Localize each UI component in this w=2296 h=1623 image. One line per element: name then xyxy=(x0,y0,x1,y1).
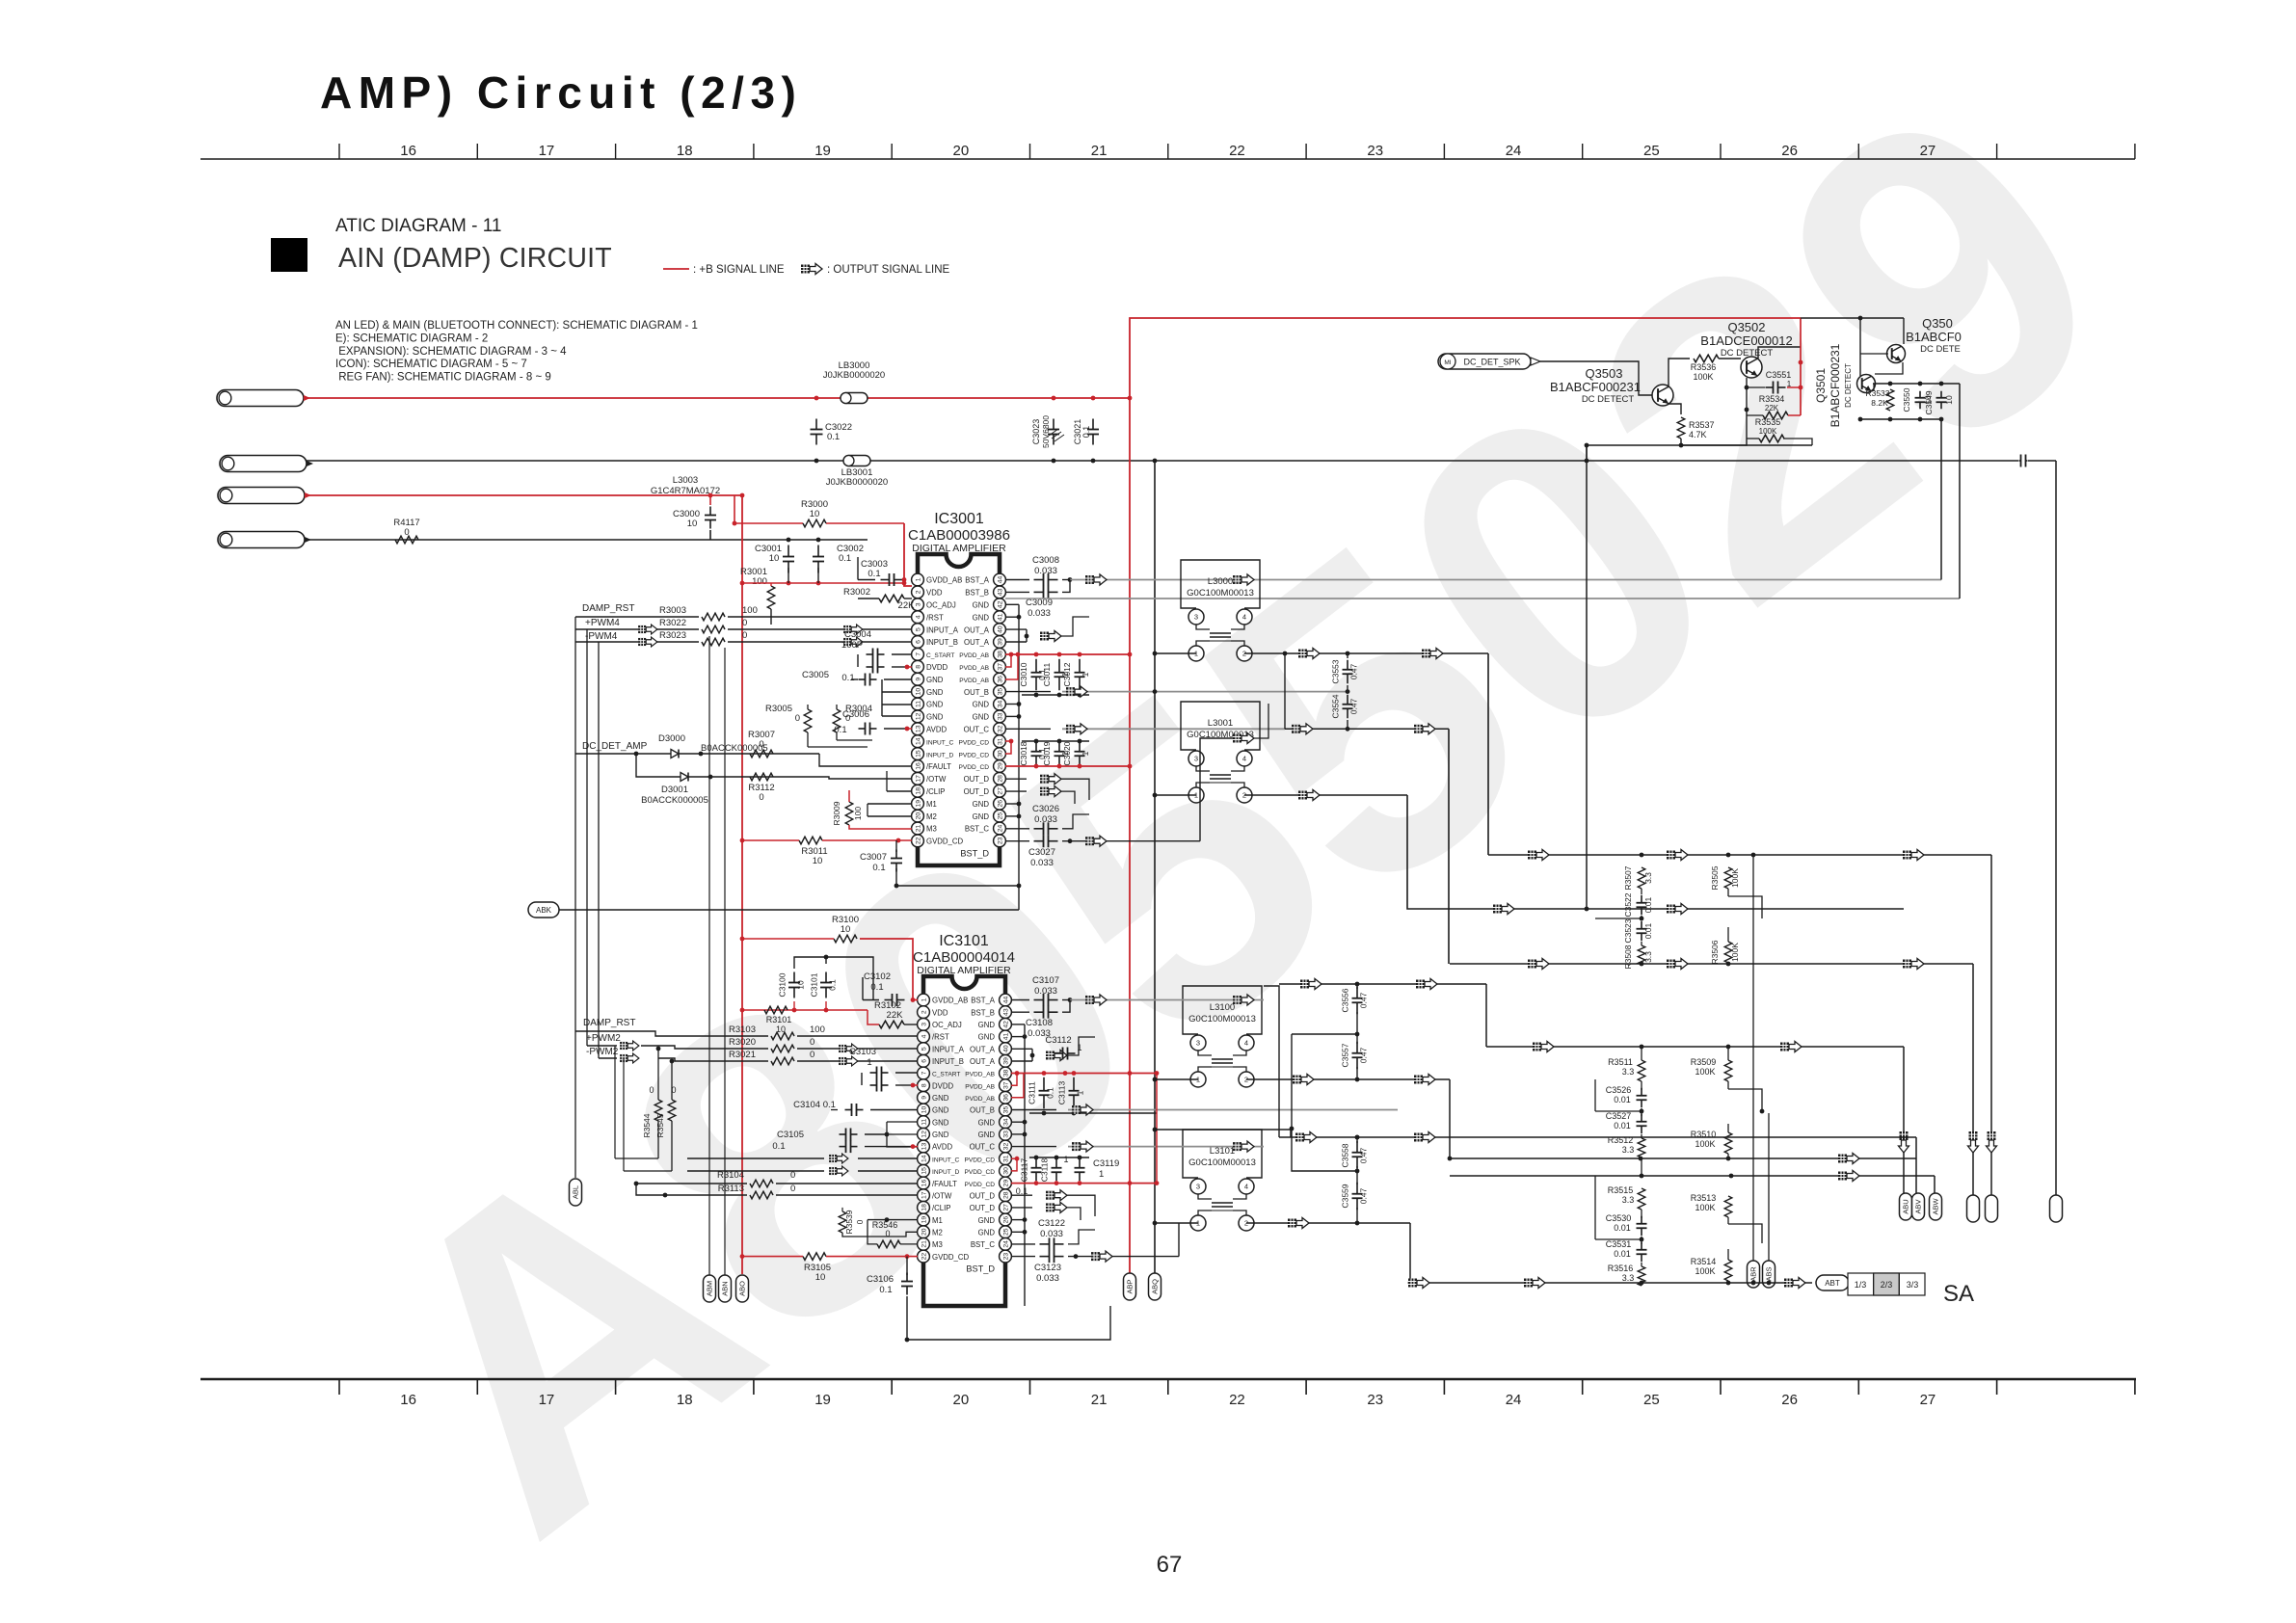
svg-text:26: 26 xyxy=(1781,143,1798,159)
svg-text:0.01: 0.01 xyxy=(1643,896,1653,913)
svg-text:34: 34 xyxy=(997,701,1003,708)
svg-text:C3006: C3006 xyxy=(842,709,869,720)
wire Q3501 rails xyxy=(1873,384,1875,391)
svg-text:C_START: C_START xyxy=(932,1072,960,1078)
wire OUT_A rows xyxy=(1005,628,1027,630)
svg-text:0.01: 0.01 xyxy=(1614,1121,1631,1131)
svg-text:PVDD_AB: PVDD_AB xyxy=(965,1072,995,1078)
capacitor C3023 (electrolytic) xyxy=(1053,419,1055,430)
svg-text:R3003: R3003 xyxy=(659,605,686,616)
svg-text:35: 35 xyxy=(997,688,1003,696)
svg-text:44: 44 xyxy=(1002,997,1009,1004)
svg-text:OUT_C: OUT_C xyxy=(970,1143,996,1152)
capacitor C3000 xyxy=(709,507,711,516)
wire bus 943 xyxy=(1407,795,1904,909)
svg-text:L3001: L3001 xyxy=(1208,718,1233,729)
svg-text:D3001: D3001 xyxy=(661,785,688,795)
resistor R3020 xyxy=(771,1045,794,1052)
svg-text:0.1: 0.1 xyxy=(870,982,883,993)
capacitor C3012 xyxy=(1079,659,1081,673)
svg-text:INPUT_A: INPUT_A xyxy=(932,1045,965,1053)
resistor R3534 xyxy=(1763,412,1788,419)
wire rail to verticals xyxy=(1940,419,1942,580)
pill ABP xyxy=(1124,1273,1136,1300)
svg-text:0.033: 0.033 xyxy=(1040,1229,1063,1239)
junction dots input nets xyxy=(740,493,745,498)
capacitor C3111 xyxy=(1043,1078,1045,1091)
svg-text:PVDD_CD: PVDD_CD xyxy=(964,1182,995,1188)
ferrite bead LB3001 xyxy=(843,456,870,466)
IC3101 pin 10 GND xyxy=(918,1104,930,1116)
svg-text:GND: GND xyxy=(926,676,944,684)
IC3101 pin 21 M3 xyxy=(918,1238,930,1251)
resistor R3536 xyxy=(1694,355,1719,362)
resistor R3539 xyxy=(839,1211,846,1233)
svg-text:0.033: 0.033 xyxy=(1028,608,1051,619)
svg-text:DC_DET_SPK: DC_DET_SPK xyxy=(1463,358,1520,367)
svg-text:43: 43 xyxy=(1002,1008,1009,1016)
svg-text:0.1: 0.1 xyxy=(839,553,851,564)
svg-text:25: 25 xyxy=(1643,1392,1660,1408)
wire L3101 pin2 output xyxy=(1246,1222,1410,1224)
svg-text:GND: GND xyxy=(978,1228,996,1237)
svg-text:C1AB00003986: C1AB00003986 xyxy=(908,527,1010,544)
wire INPUT_C row 2 xyxy=(615,1157,658,1159)
svg-text:3.3: 3.3 xyxy=(1622,1145,1635,1155)
wire CLIP M1 M2 stubs xyxy=(887,790,912,792)
IC3001 pin 37 PVDD_AB xyxy=(994,660,1006,673)
inductor L3100 xyxy=(1183,986,1262,1034)
wire INPUT_D row 2 xyxy=(624,1170,672,1172)
wire L3001 pin2 output xyxy=(1244,794,1407,796)
svg-text:17: 17 xyxy=(539,1392,555,1408)
IC body IC3001 xyxy=(918,554,1000,865)
svg-text:1: 1 xyxy=(921,998,927,1001)
svg-text:B1ADCE000012: B1ADCE000012 xyxy=(1700,333,1792,348)
wire top black jog xyxy=(1801,317,1904,319)
IC3001 pin 16 /FAULT xyxy=(912,760,924,773)
svg-text:REG FAN): SCHEMATIC DIAGRAM -: REG FAN): SCHEMATIC DIAGRAM - 8 ~ 9 xyxy=(335,372,551,384)
capacitor C3021 xyxy=(1092,419,1094,430)
IC3101 pin 41 GND xyxy=(1000,1030,1012,1043)
svg-text:GND: GND xyxy=(973,800,990,809)
IC3001 pin 3 OC_ADJ xyxy=(912,599,924,611)
svg-text:18: 18 xyxy=(677,1392,693,1408)
pill right lone xyxy=(2050,1195,2063,1222)
svg-text:0.1: 0.1 xyxy=(872,863,885,873)
svg-text:C3018: C3018 xyxy=(1019,741,1028,765)
svg-text:PVDD_CD: PVDD_CD xyxy=(958,764,989,771)
svg-text:25: 25 xyxy=(1643,143,1660,159)
svg-text:23: 23 xyxy=(1002,1253,1009,1261)
svg-text:DC DETECT: DC DETECT xyxy=(1844,363,1853,408)
IC3001 pin 8 DVDD xyxy=(912,660,924,673)
wire C3558 C3559 spine xyxy=(1356,1137,1358,1143)
ferrite bead LB3000 xyxy=(841,393,868,404)
svg-text:28: 28 xyxy=(1002,1191,1009,1199)
svg-text:0.47: 0.47 xyxy=(1359,1147,1369,1163)
arrow +PWM2 in xyxy=(620,1041,639,1051)
svg-text:C3106: C3106 xyxy=(867,1274,894,1285)
svg-text:OUT_D: OUT_D xyxy=(970,1204,996,1212)
svg-text:D3000: D3000 xyxy=(658,733,685,744)
svg-text:32: 32 xyxy=(1002,1143,1009,1151)
svg-text:L3101: L3101 xyxy=(1210,1146,1235,1157)
capacitor C3020 xyxy=(1079,743,1081,752)
pill ABL xyxy=(570,1179,582,1206)
IC3001 pin 24 BST_C xyxy=(994,822,1006,835)
svg-text:OUT_C: OUT_C xyxy=(964,726,990,734)
svg-text:ABQ: ABQ xyxy=(1151,1279,1160,1294)
wire +PWM4 row xyxy=(575,628,699,630)
IC3001 pin 32 OUT_C xyxy=(994,723,1006,735)
svg-text:C3559: C3559 xyxy=(1341,1184,1350,1208)
svg-text:0: 0 xyxy=(759,739,763,750)
svg-text:OUT_D: OUT_D xyxy=(970,1191,996,1200)
svg-text:0.1: 0.1 xyxy=(879,1285,892,1295)
wire cap tops rail CD2 xyxy=(1029,1157,1089,1158)
svg-text:C3023: C3023 xyxy=(1031,419,1041,445)
wire C3556 leads xyxy=(1356,984,1358,989)
wire cap bottoms rail 2 xyxy=(1029,1112,1157,1114)
resistor R3112 xyxy=(750,773,773,781)
svg-text:10: 10 xyxy=(1944,395,1954,405)
resistor R3544 xyxy=(654,1100,662,1121)
legend +B signal line xyxy=(663,268,689,270)
svg-text:ABT: ABT xyxy=(1825,1279,1840,1288)
svg-text:R3002: R3002 xyxy=(843,587,870,598)
svg-text:DC_DET_AMP: DC_DET_AMP xyxy=(582,741,648,752)
svg-text:0: 0 xyxy=(790,1184,795,1194)
wire riser x1544 xyxy=(1487,653,1489,855)
svg-text:Q3502: Q3502 xyxy=(1727,320,1765,334)
wire risers from PWM rows xyxy=(574,617,576,1178)
svg-text:4: 4 xyxy=(921,1034,927,1038)
wire L3001 pin1 to riser xyxy=(1155,794,1196,796)
bottom ruler scale xyxy=(200,1378,2136,1381)
svg-text:100K: 100K xyxy=(1730,943,1740,962)
IC3101 pin 23 BST_D xyxy=(1000,1250,1012,1263)
wire R3536 to Q3502 xyxy=(1719,358,1741,359)
wire Q3502 collector red xyxy=(1758,347,1801,359)
IC3101 pin 12 GND xyxy=(918,1128,930,1140)
wire bus 887 xyxy=(1488,854,1991,856)
IC3001 pin 22 GVDD_CD xyxy=(912,835,924,847)
svg-text:J0JKB0000020: J0JKB0000020 xyxy=(826,477,888,488)
wire OUT_D2 steps xyxy=(1067,1195,1095,1216)
IC3101 pin 11 GND xyxy=(918,1116,930,1129)
arrow OUT_B2 xyxy=(1072,1104,1093,1115)
svg-text:3: 3 xyxy=(921,1023,927,1026)
IC3101 pin 13 AVDD xyxy=(918,1140,930,1153)
svg-text:C3554: C3554 xyxy=(1331,694,1341,718)
wire R3537 bottom xyxy=(1680,439,1682,445)
connector P1 xyxy=(217,390,304,407)
IC3101 pin 18 /CLIP xyxy=(918,1201,930,1213)
svg-text:C3103: C3103 xyxy=(849,1047,876,1057)
svg-text:17: 17 xyxy=(921,1191,927,1199)
wire cluster3 links xyxy=(1641,1210,1642,1218)
IC3101 pin 6 INPUT_B xyxy=(918,1054,930,1067)
wire DC_DET_SPK to Q3503 xyxy=(1540,361,1652,395)
svg-text:0: 0 xyxy=(795,713,800,724)
svg-text:R3101: R3101 xyxy=(766,1015,792,1024)
svg-text:IC3001: IC3001 xyxy=(934,511,984,527)
svg-text:R3509: R3509 xyxy=(1691,1057,1717,1067)
wire OUT_C2 out xyxy=(1011,1146,1056,1148)
IC3001 pin 18 /CLIP xyxy=(912,785,924,797)
arrow BST_D xyxy=(1085,836,1107,846)
svg-text:IC3101: IC3101 xyxy=(939,933,989,949)
IC3101 pin 5 INPUT_A xyxy=(918,1043,930,1055)
IC3001 pin 2 VDD xyxy=(912,586,924,599)
svg-text:BST_B: BST_B xyxy=(965,589,989,598)
svg-text:10: 10 xyxy=(841,924,851,935)
svg-text:3.3: 3.3 xyxy=(1622,1195,1635,1205)
wire BST_A out xyxy=(1005,579,1029,581)
capacitor C3006 xyxy=(859,728,866,730)
svg-text:J0JKB0000020: J0JKB0000020 xyxy=(823,370,885,381)
svg-text:OUT_A: OUT_A xyxy=(964,638,990,647)
svg-text:14: 14 xyxy=(921,1155,927,1162)
capacitor C3001 xyxy=(788,545,789,557)
arrow OUT_C xyxy=(1066,724,1087,734)
svg-text:C3530: C3530 xyxy=(1606,1213,1632,1223)
wire PVDD_CD2 pin taps xyxy=(1011,1157,1017,1171)
capacitor C3009 xyxy=(1034,591,1044,593)
svg-text:GVDD_CD: GVDD_CD xyxy=(926,838,963,846)
svg-text:ABL: ABL xyxy=(572,1185,580,1199)
svg-text:PVDD_CD: PVDD_CD xyxy=(964,1169,995,1176)
capacitor C3558 xyxy=(1356,1141,1358,1153)
svg-text:29: 29 xyxy=(1002,1180,1009,1187)
svg-text:0: 0 xyxy=(855,1219,865,1224)
svg-text:DVDD: DVDD xyxy=(932,1081,953,1090)
svg-text:100K: 100K xyxy=(1759,427,1777,436)
svg-text:28: 28 xyxy=(997,775,1003,783)
svg-text:-PWM2: -PWM2 xyxy=(586,1047,619,1057)
svg-text:E): SCHEMATIC DIAGRAM - 2: E): SCHEMATIC DIAGRAM - 2 xyxy=(335,333,488,344)
svg-text:ABK: ABK xyxy=(536,906,552,915)
svg-text:12: 12 xyxy=(921,1131,927,1138)
pill ABN xyxy=(719,1275,732,1302)
capacitor C3008 xyxy=(1034,579,1044,581)
wire row 1172 stub xyxy=(1155,1129,1291,1131)
capacitor C3122 xyxy=(1040,1243,1050,1245)
svg-text:0: 0 xyxy=(742,630,747,641)
svg-text:R3508: R3508 xyxy=(1623,945,1633,969)
svg-text:0.47: 0.47 xyxy=(1349,698,1359,714)
IC3001 pin 7 C_START xyxy=(912,649,924,661)
IC3001 pin 25 GND xyxy=(994,810,1006,822)
svg-text:R3535: R3535 xyxy=(1755,417,1781,427)
svg-text:R3544: R3544 xyxy=(642,1113,652,1137)
svg-text:5: 5 xyxy=(915,627,921,631)
svg-text:B1ABCF000231: B1ABCF000231 xyxy=(1550,380,1641,394)
svg-text:10: 10 xyxy=(815,1272,826,1283)
svg-text:0.47: 0.47 xyxy=(1359,1187,1369,1204)
wire Q3503 emitter xyxy=(1669,404,1681,414)
svg-text:R3536: R3536 xyxy=(1691,362,1717,372)
IC3001 pin 23 BST_D xyxy=(994,835,1006,847)
svg-text:42: 42 xyxy=(997,600,1003,608)
net label DC_DET_SPK xyxy=(1438,354,1531,369)
svg-text:2: 2 xyxy=(915,590,921,594)
arrow BST_D2 xyxy=(1091,1251,1112,1262)
junction dots on top buses xyxy=(814,396,819,401)
svg-text:R3514: R3514 xyxy=(1691,1257,1717,1266)
pill blank B xyxy=(1986,1195,1998,1222)
wire OUT_B out xyxy=(1005,691,1051,693)
arrow bus887 c xyxy=(1903,850,1924,861)
IC3101 pin 24 BST_C xyxy=(1000,1238,1012,1251)
resistor R3002 xyxy=(879,595,904,602)
capacitor C3107 xyxy=(1034,999,1044,1001)
resistor R3545 xyxy=(668,1100,676,1121)
svg-text:/FAULT: /FAULT xyxy=(926,762,951,771)
svg-text:100K: 100K xyxy=(1695,1139,1715,1149)
svg-text:R3021: R3021 xyxy=(729,1050,756,1060)
svg-text:41: 41 xyxy=(997,613,1003,621)
svg-text:BST_B: BST_B xyxy=(971,1008,995,1017)
capacitor C3526 xyxy=(1641,1088,1642,1096)
IC3101 pin 30 PVDD_CD xyxy=(1000,1164,1012,1177)
arrow row1331 c xyxy=(1784,1278,1805,1289)
svg-text:C3558: C3558 xyxy=(1341,1143,1350,1167)
svg-text:C3522: C3522 xyxy=(1623,892,1633,917)
svg-text:Q3503: Q3503 xyxy=(1585,366,1622,381)
capacitor C3027 xyxy=(1034,840,1044,842)
svg-text:1: 1 xyxy=(915,577,921,581)
wire GND2 pins 26 25 xyxy=(1011,1219,1025,1221)
connector P3 xyxy=(218,488,305,504)
svg-text:GVDD_AB: GVDD_AB xyxy=(932,997,968,1005)
diode D3001 xyxy=(676,776,693,778)
svg-text:INPUT_A: INPUT_A xyxy=(926,625,959,634)
arrow row1331 a xyxy=(1408,1278,1429,1289)
wire +B red loop to top right xyxy=(1130,318,1801,398)
svg-text:C3004: C3004 xyxy=(844,629,871,640)
svg-text:B0ACCK000005: B0ACCK000005 xyxy=(641,795,708,806)
svg-text:0: 0 xyxy=(885,1229,890,1238)
svg-text:24: 24 xyxy=(1506,143,1522,159)
svg-text:0: 0 xyxy=(790,1170,795,1181)
arrow INPUT_A 2 xyxy=(839,1044,858,1053)
svg-text:OUT_B: OUT_B xyxy=(970,1106,995,1115)
svg-text:+PWM2: +PWM2 xyxy=(586,1033,621,1044)
svg-text:67: 67 xyxy=(1157,1552,1183,1578)
arrow bus887 a xyxy=(1528,850,1549,861)
svg-text:SA: SA xyxy=(1943,1281,1974,1307)
svg-text:M2: M2 xyxy=(932,1228,943,1237)
svg-text:R3005: R3005 xyxy=(765,704,792,714)
svg-text:41: 41 xyxy=(1002,1033,1009,1041)
svg-text:INPUT_D: INPUT_D xyxy=(932,1169,959,1176)
svg-text:0.1: 0.1 xyxy=(772,1141,785,1152)
wire row 1220 xyxy=(1450,1175,1935,1177)
capacitor C3117 xyxy=(1035,1159,1037,1168)
svg-text:R3537: R3537 xyxy=(1689,420,1715,430)
resistor R3022 xyxy=(702,625,725,633)
svg-text:0: 0 xyxy=(649,1085,654,1095)
capacitor C3003 xyxy=(881,579,890,581)
svg-text:8: 8 xyxy=(921,1083,927,1087)
svg-text:31: 31 xyxy=(1002,1155,1009,1162)
svg-text:0: 0 xyxy=(742,618,747,628)
svg-text:C3112: C3112 xyxy=(1045,1035,1071,1046)
svg-text:C3111: C3111 xyxy=(1028,1081,1037,1104)
resistor R3105 xyxy=(803,1253,826,1261)
transistor Q3500 xyxy=(1887,345,1906,363)
svg-text:3.3: 3.3 xyxy=(1622,1067,1635,1077)
svg-text:6: 6 xyxy=(915,640,921,644)
arrow OUT_D 2 xyxy=(1040,786,1061,797)
wire ABW drop xyxy=(1934,1176,1936,1193)
svg-text:AMP) Circuit (2/3): AMP) Circuit (2/3) xyxy=(320,67,802,118)
svg-text:C3119: C3119 xyxy=(1093,1158,1119,1169)
IC3001 pin 12 GND xyxy=(912,710,924,723)
svg-text:/CLIP: /CLIP xyxy=(926,787,946,796)
resistor R3514 xyxy=(1724,1260,1732,1281)
transistor Q3503 xyxy=(1652,385,1673,406)
svg-text:36: 36 xyxy=(997,676,1003,683)
svg-text:13: 13 xyxy=(921,1143,927,1151)
capacitor C3556 xyxy=(1356,987,1358,998)
svg-text:PVDD_CD: PVDD_CD xyxy=(958,739,989,746)
IC3101 pin 38 PVDD_AB xyxy=(1000,1067,1012,1079)
svg-text:-PWM4: -PWM4 xyxy=(585,631,618,642)
resistor R3509 xyxy=(1724,1060,1732,1081)
svg-text:11: 11 xyxy=(915,701,921,707)
wire GVDD_CD red row 2 xyxy=(742,1256,803,1258)
wire GND pins 34 33 xyxy=(1005,704,1019,705)
svg-text:21: 21 xyxy=(1091,143,1108,159)
svg-text:23: 23 xyxy=(1367,1392,1383,1408)
wire L3100 pin1 to riser xyxy=(1155,1078,1198,1080)
svg-text:27: 27 xyxy=(1920,143,1936,159)
wire red to IC3101 pin1 xyxy=(742,938,834,940)
IC3001 pin 1 GVDD_AB xyxy=(912,573,924,586)
svg-text:GND: GND xyxy=(926,701,944,709)
wire red rail y605 xyxy=(742,582,904,584)
svg-text:R3022: R3022 xyxy=(659,618,686,628)
svg-text:C1AB00004014: C1AB00004014 xyxy=(913,949,1015,966)
svg-text:10: 10 xyxy=(810,509,820,519)
svg-text:/RST: /RST xyxy=(926,613,944,622)
svg-text:L3100: L3100 xyxy=(1210,1002,1235,1013)
svg-text:24: 24 xyxy=(1002,1240,1009,1248)
capacitor C3530 xyxy=(1641,1216,1642,1224)
svg-text:21: 21 xyxy=(921,1240,927,1248)
svg-text:ABP: ABP xyxy=(1126,1279,1135,1293)
svg-text:PVDD_CD: PVDD_CD xyxy=(958,752,989,758)
svg-text:R3539: R3539 xyxy=(844,1210,854,1234)
svg-text:6: 6 xyxy=(921,1059,927,1063)
svg-text:0.01: 0.01 xyxy=(1614,1095,1631,1104)
svg-text:22K: 22K xyxy=(887,1010,904,1021)
capacitor C3522 xyxy=(1641,895,1642,903)
svg-text:INPUT_B: INPUT_B xyxy=(932,1057,964,1066)
wire C3003 left lead xyxy=(858,579,875,581)
svg-text:GND: GND xyxy=(973,601,990,610)
wire GND rows pins 9-12 xyxy=(882,691,912,693)
svg-text:C3104 0.1: C3104 0.1 xyxy=(793,1100,836,1110)
wire PVDD_AB2 pin taps xyxy=(1011,1074,1017,1086)
svg-text:24: 24 xyxy=(997,825,1003,833)
inductor L3001 xyxy=(1181,702,1260,750)
wire DAMP_RST row xyxy=(575,616,699,618)
svg-text:3: 3 xyxy=(1194,613,1198,622)
